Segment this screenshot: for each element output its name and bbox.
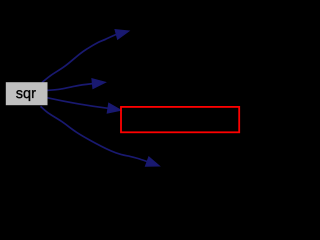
arrowhead of top-right edge (115, 30, 129, 40)
svg-text:sqr: sqr (16, 86, 36, 102)
node sqr (current function, gray box) (6, 82, 48, 105)
arrowhead of second edge (92, 79, 106, 89)
wire: edge from sqr to bottom-right node (41, 106, 148, 161)
arrowhead of edge into red node (107, 103, 121, 113)
wire: edge from sqr to red node (48, 98, 109, 109)
wire: edge from sqr to top-right node (42, 34, 116, 82)
arrowhead of bottom-right edge (145, 157, 159, 166)
wire: edge from sqr to second node (48, 84, 93, 91)
node: truncated callee (red outline, empty) (121, 107, 239, 132)
